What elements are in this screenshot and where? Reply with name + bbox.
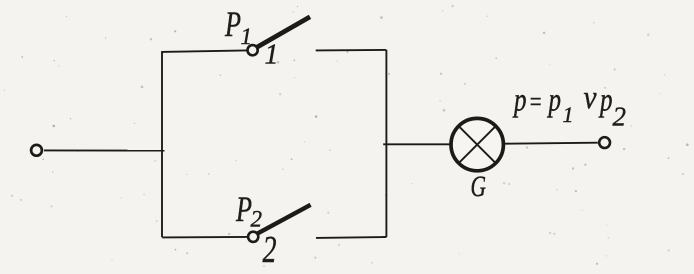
wire left vertical branch bbox=[161, 52, 163, 238]
wire top-right rail bbox=[316, 49, 387, 52]
switch P2 lever bbox=[258, 205, 311, 234]
lamp G cross bbox=[459, 126, 495, 162]
wire top-left rail bbox=[161, 50, 247, 52]
svg-text:v: v bbox=[584, 80, 597, 116]
svg-text:1: 1 bbox=[265, 40, 279, 71]
lamp G body bbox=[451, 118, 503, 170]
wire right vertical branch bbox=[385, 50, 387, 237]
svg-text:p: p bbox=[547, 83, 561, 119]
svg-text:=: = bbox=[529, 87, 543, 118]
svg-text:2: 2 bbox=[251, 207, 263, 232]
svg-text:1: 1 bbox=[563, 102, 574, 127]
svg-text:2: 2 bbox=[613, 102, 627, 132]
svg-text:p: p bbox=[512, 83, 526, 119]
svg-text:P: P bbox=[224, 4, 241, 44]
label P2 (switch 2 name) bbox=[235, 189, 262, 232]
svg-text:p: p bbox=[598, 83, 612, 119]
svg-text:1: 1 bbox=[241, 24, 253, 49]
svg-text:P: P bbox=[235, 189, 252, 229]
wire bottom-right rail bbox=[316, 236, 386, 239]
switch P2 pivot bbox=[248, 232, 258, 242]
wire lamp to right terminal bbox=[504, 143, 598, 144]
switch P1 lever bbox=[257, 17, 310, 48]
svg-text:G: G bbox=[471, 170, 487, 203]
right terminal bbox=[599, 137, 610, 148]
wire bottom-left rail bbox=[162, 236, 247, 239]
label P1 (switch 1 name) bbox=[224, 4, 252, 49]
equation p = p1 v p2 bbox=[512, 80, 626, 132]
switch P1 pivot bbox=[248, 45, 258, 55]
left terminal bbox=[31, 145, 42, 156]
svg-text:2: 2 bbox=[263, 229, 277, 271]
wire left terminal to junction bbox=[44, 149, 165, 151]
wire junction to lamp bbox=[383, 143, 451, 145]
